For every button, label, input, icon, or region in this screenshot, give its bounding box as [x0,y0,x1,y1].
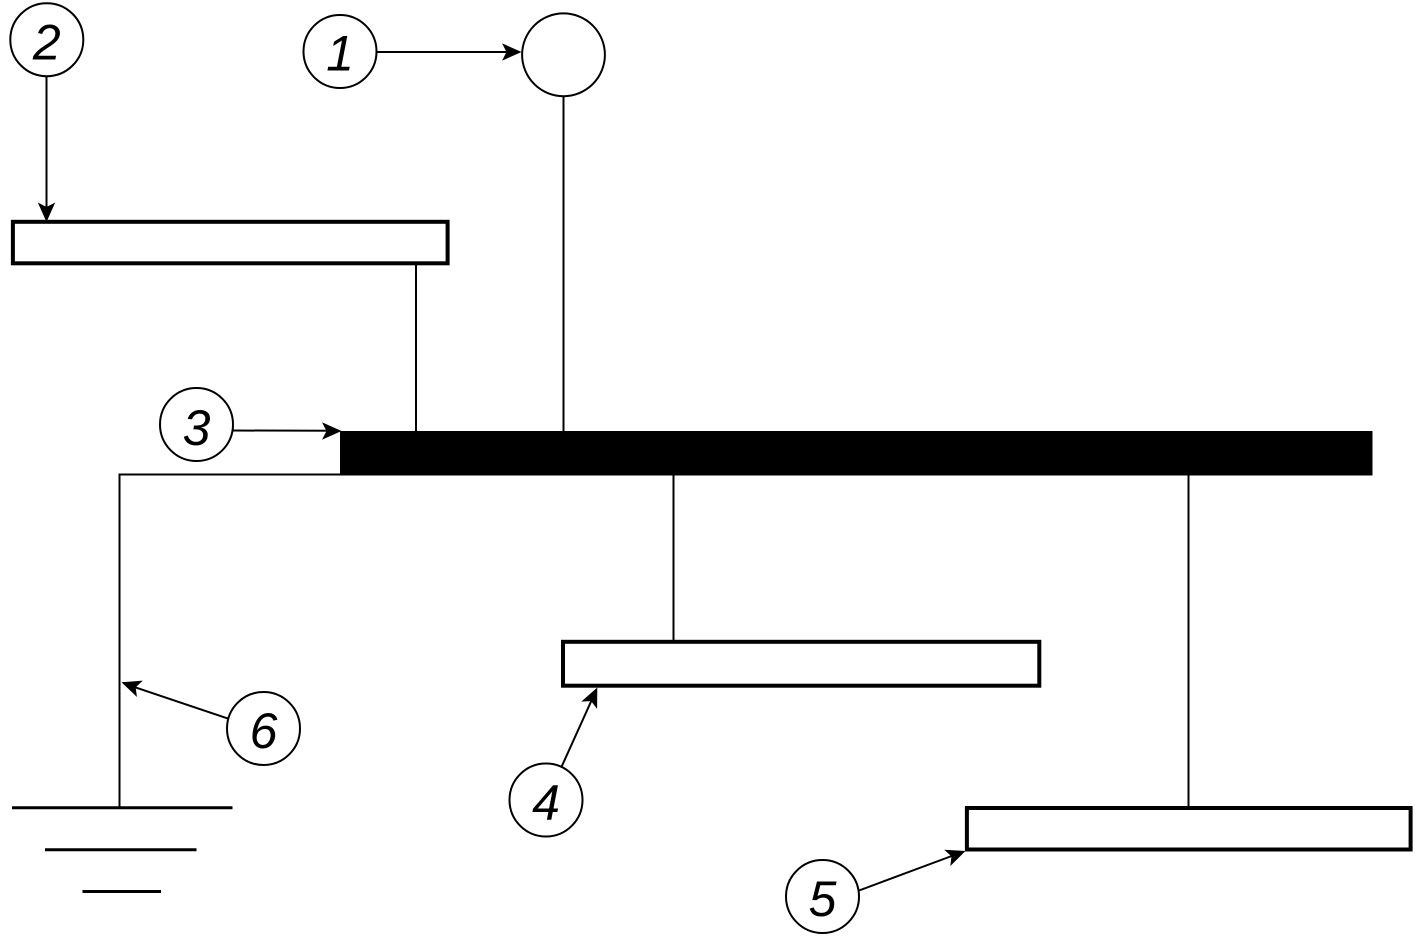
arrow from callout 5 to block 5 [859,843,969,891]
callout 4 [510,764,583,837]
busbar 3 [340,431,1373,476]
wire busbar to block 5 [1188,476,1190,808]
svg-text:4: 4 [532,775,560,831]
block 4 rectangle [563,642,1039,686]
block 5 rectangle [967,808,1411,850]
block 2 rectangle [13,222,448,263]
svg-text:1: 1 [326,26,354,82]
wire block 2 to busbar [415,265,417,431]
wire busbar to block 4 [673,476,675,641]
svg-text:5: 5 [809,871,837,927]
arrow from callout 2 to block 2 [38,76,55,222]
arrow from callout 3 to busbar [233,422,342,439]
callout 3 [160,388,233,461]
arrow from callout 1 to generator [377,43,522,60]
callout 2 [10,3,83,76]
arrow from callout 4 to block 4 [562,684,606,767]
callout 5 [786,860,859,933]
callout 1 [304,15,377,88]
generator circle [522,13,605,96]
svg-text:3: 3 [183,400,211,456]
wire generator to busbar [563,96,565,431]
ground [12,808,233,892]
svg-text:6: 6 [250,703,278,759]
callout 6 [227,692,300,765]
arrow from callout 6 to ground wire [119,674,228,718]
wire busbar to ground [120,475,341,809]
svg-text:2: 2 [32,15,61,71]
